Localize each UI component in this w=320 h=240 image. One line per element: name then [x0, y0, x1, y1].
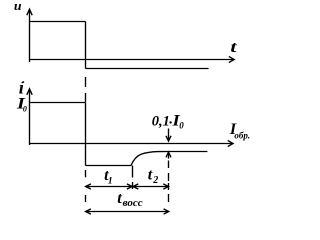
svg-text:u: u: [14, 0, 22, 13]
svg-text:t: t: [117, 190, 122, 207]
svg-text:0: 0: [179, 121, 184, 131]
svg-text:0,1: 0,1: [152, 113, 170, 129]
svg-text:ı: ı: [19, 78, 24, 98]
svg-text:обр.: обр.: [234, 131, 250, 141]
svg-text:t: t: [148, 167, 153, 184]
svg-text:0: 0: [23, 105, 27, 114]
svg-text:2: 2: [152, 175, 158, 186]
svg-text:1: 1: [108, 177, 113, 187]
svg-text:t: t: [230, 39, 237, 56]
svg-text:восс: восс: [123, 197, 143, 209]
